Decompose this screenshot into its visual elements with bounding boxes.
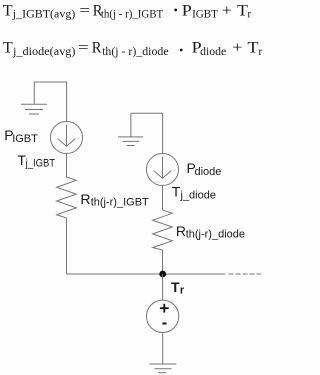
- resistor R_th(j-r)_IGBT: [57, 177, 77, 218]
- svg-text:IGBT: IGBT: [192, 8, 218, 20]
- label node T_r: [171, 279, 185, 296]
- svg-text:diode: diode: [195, 166, 222, 178]
- label P_IGBT: [4, 127, 38, 145]
- wire: G1 to top of P_IGBT source: [34, 82, 66, 122]
- svg-text:diode: diode: [200, 46, 226, 58]
- wire: node T_r to voltage source: [162, 274, 164, 300]
- label R_th(j-r)_diode: [176, 223, 245, 241]
- svg-text:r: r: [247, 8, 251, 20]
- current source P_diode: [147, 154, 179, 186]
- wire: resistor to node T_r: [162, 250, 164, 274]
- svg-text:r: r: [258, 46, 262, 58]
- wire: dashed continuation of bus: [229, 273, 261, 275]
- svg-text:R: R: [92, 40, 102, 57]
- current source P_IGBT: [51, 122, 83, 154]
- svg-text:j_diode(avg): j_diode(avg): [12, 46, 76, 58]
- svg-text:=: =: [79, 2, 90, 19]
- svg-text:P: P: [182, 2, 192, 19]
- wire: bottom bus node T_r rail: [67, 273, 226, 275]
- svg-text:j_diode: j_diode: [180, 189, 216, 201]
- svg-text:R: R: [80, 191, 90, 207]
- svg-text:j_IGBT(avg): j_IGBT(avg): [12, 8, 76, 20]
- svg-text:T: T: [171, 279, 180, 295]
- equation 1: Tj_IGBT(avg) = Rth(j-r)_IGBT * P_IGBT + Tr: [3, 2, 252, 20]
- svg-text:th(j - r)_diode: th(j - r)_diode: [102, 46, 169, 58]
- svg-text:T: T: [3, 40, 13, 57]
- label T_j_IGBT: [17, 152, 55, 170]
- svg-text:+: +: [222, 2, 232, 19]
- equation 2: Tj_diode(avg) = Rth(j-r)_diode * P_diode + Tr: [3, 40, 263, 58]
- svg-text:R: R: [176, 223, 186, 239]
- wire: G2 to top of P_diode source: [131, 113, 163, 153]
- wire: P_IGBT source to resistor: [66, 154, 68, 178]
- svg-text:j_IGBT: j_IGBT: [25, 158, 56, 170]
- label R_th(j-r)_IGBT: [80, 191, 149, 209]
- label T_j_diode: [172, 183, 216, 201]
- wire: P_diode source to resistor: [162, 186, 164, 211]
- svg-text:=: =: [78, 40, 89, 57]
- svg-text:IGBT: IGBT: [12, 133, 38, 145]
- svg-text:+: +: [232, 40, 242, 57]
- svg-text:T: T: [247, 40, 258, 57]
- label P_diode: [187, 160, 222, 178]
- ground G1 (top left): [21, 82, 47, 114]
- ground G3 (bottom): [149, 364, 176, 373]
- resistor R_th(j-r)_diode: [153, 210, 173, 250]
- ground G2 (above P_diode): [118, 113, 143, 145]
- svg-text:th(j - r)_IGBT: th(j - r)_IGBT: [101, 8, 163, 20]
- svg-text:T: T: [172, 183, 181, 199]
- wire: resistor to bottom bus: [66, 218, 68, 274]
- svg-text:th(j-r)_IGBT: th(j-r)_IGBT: [91, 197, 149, 209]
- svg-text:th(j-r)_diode: th(j-r)_diode: [186, 229, 245, 241]
- junction node T_r: [159, 271, 166, 278]
- svg-text:r: r: [180, 284, 185, 296]
- voltage source T_r reference: [146, 300, 178, 332]
- wire: voltage source to ground G3: [162, 333, 164, 365]
- svg-text:T: T: [3, 2, 13, 19]
